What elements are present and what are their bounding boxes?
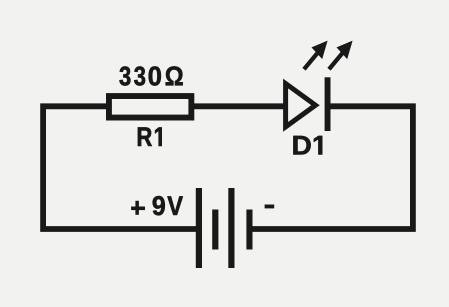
label R1 (resistor designator) xyxy=(138,127,162,146)
wire: resistor to LED anode xyxy=(192,103,285,109)
wire: LED cathode to right side and bottom run to battery negative plate xyxy=(252,106,413,229)
battery inner long plate xyxy=(228,188,234,268)
label 330Ω (resistor value) xyxy=(120,66,183,85)
battery positive plate (long, left) xyxy=(196,188,202,268)
label D1 (LED designator) xyxy=(293,136,322,155)
LED D1 cathode bar xyxy=(325,77,331,131)
battery inner short plate xyxy=(212,210,218,250)
wire: top-left, left side and bottom-left run to battery positive plate xyxy=(43,106,196,229)
label 9V (battery voltage) xyxy=(153,196,183,215)
label - (battery negative sign) xyxy=(265,205,275,209)
LED light arrow 1 xyxy=(304,41,328,70)
resistor R1 (box) xyxy=(109,96,191,118)
label + (battery positive sign) xyxy=(131,201,145,215)
battery negative plate (short, right) xyxy=(246,210,252,250)
LED D1 anode triangle xyxy=(286,84,316,127)
LED light arrow 2 xyxy=(329,41,353,70)
